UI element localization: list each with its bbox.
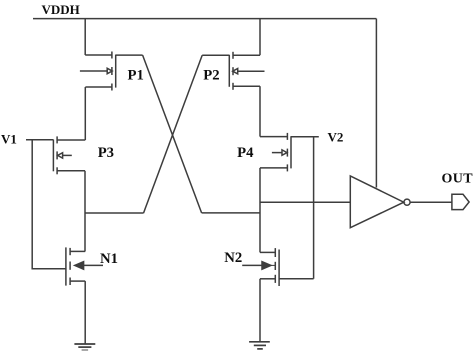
transistor P2: [229, 52, 264, 90]
V1 label: [1, 132, 17, 147]
wire: N2 source to ground: [259, 279, 261, 342]
wire: inverter input from drain node: [260, 201, 350, 203]
svg-text:VDDH: VDDH: [42, 2, 80, 17]
svg-text:N1: N1: [100, 251, 118, 267]
svg-text:OUT: OUT: [442, 171, 474, 186]
wire: V1 down to N1 gate: [32, 140, 66, 269]
P2 label: [203, 68, 219, 84]
wire: N2 gate to V2 node: [279, 278, 314, 280]
ground (right): [249, 342, 270, 349]
svg-text:P1: P1: [128, 68, 144, 84]
wire: P4 drain to N2 drain: [259, 168, 261, 253]
V2 label: [328, 129, 344, 144]
svg-text:P3: P3: [98, 145, 114, 161]
P3 label: [98, 145, 114, 161]
wire: VDDH rail down to inverter: [375, 19, 377, 188]
wire: right node to P4/N2 drains: [202, 212, 260, 214]
transistor P4: [260, 133, 319, 172]
N1 label: [100, 251, 118, 267]
VDDH label: [42, 2, 80, 17]
node: P3 drain to N1 drain: [84, 171, 86, 252]
transistor P1: [80, 52, 143, 91]
wire: cross-couple diagonal from P1 gate: [143, 55, 202, 213]
transistor N2: [242, 248, 279, 286]
wire: P2 gate to diagonal: [202, 54, 229, 56]
wire: P2 drain to P4 source: [259, 86, 261, 136]
wire: N1 source to ground: [84, 281, 86, 344]
wire: left node to diagonal: [85, 212, 144, 214]
wire: rail to P1 source: [84, 19, 86, 55]
OUT label: [442, 171, 474, 186]
OUT port: [452, 194, 469, 209]
wire: P1 drain to P3 source: [84, 87, 86, 140]
VDDH rail: [33, 18, 376, 20]
wire: inverter output: [410, 201, 452, 203]
svg-text:P2: P2: [203, 68, 219, 84]
wire: rail to P2 source: [259, 19, 261, 56]
P1 label: [128, 68, 144, 84]
wire: V1 input to P3 gate: [26, 139, 53, 141]
transistor N1: [66, 247, 103, 285]
svg-text:P4: P4: [237, 145, 254, 161]
inverter U1: [350, 176, 410, 228]
wire: cross-couple diagonal from P2 gate: [144, 55, 203, 213]
svg-text:V2: V2: [328, 129, 344, 144]
P4 label: [237, 145, 254, 161]
node V2: gates of P4 and N2: [313, 137, 315, 279]
svg-text:N2: N2: [224, 250, 242, 266]
N2 label: [224, 250, 242, 266]
ground (left): [74, 344, 95, 350]
transistor P3: [53, 136, 85, 174]
svg-text:V1: V1: [1, 132, 17, 147]
